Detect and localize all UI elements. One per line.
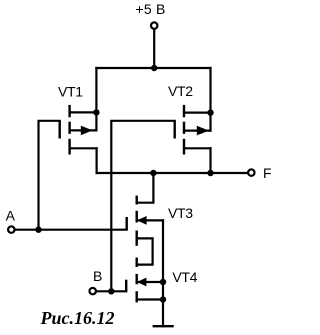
svg-text:VT3: VT3 (168, 205, 193, 221)
svg-text:F: F (263, 165, 271, 181)
svg-text:+5 В: +5 В (135, 1, 165, 17)
svg-text:A: A (6, 207, 16, 223)
svg-text:VT1: VT1 (58, 83, 83, 99)
svg-text:VT2: VT2 (168, 83, 193, 99)
svg-text:VT4: VT4 (172, 269, 197, 285)
svg-text:B: B (93, 268, 102, 284)
svg-text:Рис.16.12: Рис.16.12 (40, 308, 115, 328)
